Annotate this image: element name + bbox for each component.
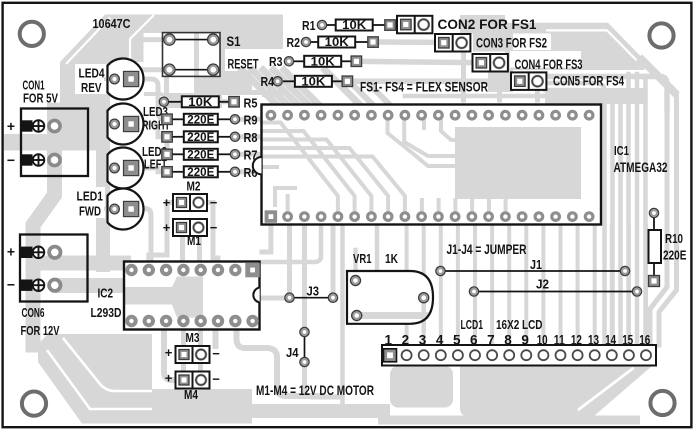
wire: CON4 pad down <box>497 68 502 100</box>
white pocket left of S1 <box>144 33 163 92</box>
svg-text:−: − <box>7 277 15 293</box>
wire: IC2 to M3 right <box>198 326 203 347</box>
wire: bottom-left pour <box>38 334 152 424</box>
resistor R9 <box>162 114 240 127</box>
resistor R4 <box>273 76 353 89</box>
connector CON2 <box>397 16 432 34</box>
wire: pour block under LCD left <box>390 366 453 408</box>
svg-text:+: + <box>163 195 171 210</box>
connector CON5 <box>511 72 546 90</box>
switch S1 <box>163 33 221 77</box>
label M3 plus <box>165 345 173 360</box>
svg-text:+: + <box>7 244 15 260</box>
wire: fan diagonal 6 <box>325 70 363 108</box>
label FOR 5V <box>23 92 59 106</box>
wire: LCD column 8 <box>507 226 511 343</box>
wire: LED1 route <box>134 209 151 263</box>
wire: arc right 3 <box>551 97 621 343</box>
svg-text:LCD1: LCD1 <box>461 317 484 332</box>
label R6 <box>244 166 258 180</box>
svg-text:220E: 220E <box>187 149 214 161</box>
connector CON3 <box>435 34 470 52</box>
label 220E r10 <box>663 248 687 263</box>
wire: M2 left route <box>149 203 181 265</box>
svg-text:+: + <box>7 118 15 134</box>
wire: IC1 to J4 <box>302 222 307 327</box>
LED LED4 <box>108 59 144 100</box>
svg-text:10K: 10K <box>188 97 213 109</box>
svg-text:3: 3 <box>419 333 427 348</box>
mounting hole top-right <box>649 23 673 47</box>
IC2 bottom pin row <box>125 315 259 327</box>
svg-text:2: 2 <box>402 333 410 348</box>
svg-text:+: + <box>165 371 173 386</box>
wire: R9 stub <box>239 117 261 122</box>
svg-text:10K: 10K <box>301 76 326 88</box>
white pocket R2 label <box>283 33 318 51</box>
svg-text:M1-M4 = 12V DC MOTOR: M1-M4 = 12V DC MOTOR <box>256 382 374 398</box>
label VR1 <box>353 252 372 266</box>
svg-text:−: − <box>210 195 218 210</box>
white pocket LED1 labels <box>74 187 105 218</box>
label IC2 <box>98 287 114 301</box>
svg-text:220E: 220E <box>187 114 214 126</box>
white isolation arc bottom-left <box>63 338 152 391</box>
jumper J1 <box>436 266 630 275</box>
label M1 plus <box>163 220 171 235</box>
wire: CON1 horizontal band <box>4 134 110 151</box>
svg-text:J3: J3 <box>307 285 320 299</box>
wire: LCD column 15 <box>627 226 631 343</box>
white line pour inner TL <box>130 15 154 62</box>
svg-text:16: 16 <box>639 333 650 348</box>
svg-text:RESET: RESET <box>228 57 260 72</box>
resistor R2 <box>301 37 378 50</box>
svg-text:R1: R1 <box>302 19 316 33</box>
label CON1 plus <box>7 118 15 134</box>
svg-text:CON2 FOR FS1: CON2 FOR FS1 <box>438 16 537 32</box>
svg-text:CON5 FOR FS4: CON5 FOR FS4 <box>553 73 624 89</box>
wire: LED2 route <box>134 168 167 172</box>
label J1 <box>530 257 542 272</box>
wire: LCD column 14 <box>610 226 614 343</box>
wire: band under M4 <box>152 389 252 424</box>
motor connector M1 <box>173 219 207 236</box>
svg-text:10K: 10K <box>325 37 350 49</box>
label R1 <box>302 19 316 33</box>
wire: R4 to CON5 <box>347 78 511 84</box>
wire: IC2 to M3 left <box>181 326 186 347</box>
wire: vertical to VR1 left pad <box>353 250 358 280</box>
jumper J3 <box>285 293 338 302</box>
svg-text:ATMEGA32: ATMEGA32 <box>614 160 668 175</box>
svg-text:J4: J4 <box>286 346 299 360</box>
label M1 <box>187 234 201 248</box>
svg-text:IC2: IC2 <box>98 287 114 301</box>
connector CON1 <box>21 109 88 177</box>
wire: right vertical 6 <box>643 76 648 343</box>
wire: R3 to CON4 <box>356 61 473 62</box>
label M4 minus <box>212 372 220 387</box>
wire: IC1 pin1 down <box>262 222 271 252</box>
jumper J4 <box>300 327 309 366</box>
svg-text:S1: S1 <box>227 34 241 49</box>
wire: arc right 2 <box>545 90 613 343</box>
wire: bottom band C <box>378 416 640 425</box>
label S1 <box>227 34 241 49</box>
wire: M2 right route <box>199 203 218 265</box>
wire: M1 left route <box>180 236 185 264</box>
wire: fan diagonal 8 <box>369 84 393 108</box>
svg-text:16X2 LCD: 16X2 LCD <box>496 317 543 332</box>
svg-text:−: − <box>212 372 220 387</box>
white isolation diag under LCD <box>578 368 634 410</box>
label CON2 FOR FS1 <box>438 16 537 32</box>
wire: S1 left pad stubs <box>144 40 170 70</box>
wire: LCD column 11 <box>559 226 563 343</box>
label R3 <box>269 55 283 69</box>
wire: M3 to M4 links <box>184 362 201 372</box>
resistor R7 <box>162 149 240 162</box>
white pocket CON4 text <box>510 51 581 68</box>
svg-text:9: 9 <box>521 333 529 348</box>
LCD header LCD1 <box>382 345 656 366</box>
svg-text:8: 8 <box>504 333 512 348</box>
label FS1-FS4 flex sensor <box>360 79 488 95</box>
wire: right outer band A <box>650 86 667 345</box>
resistor R1 <box>317 20 395 33</box>
white pocket R4 label <box>252 71 296 90</box>
svg-text:R3: R3 <box>269 55 283 69</box>
label R9 <box>244 114 258 128</box>
wire: right vertical 4 <box>626 74 631 343</box>
svg-text:CON6: CON6 <box>22 306 45 320</box>
white isolation diag bottom-left <box>47 350 152 409</box>
wire: CON1-CON6 vertical band <box>33 110 55 345</box>
IC1 bottom pin row <box>265 210 595 223</box>
connector CON4 <box>473 54 508 72</box>
svg-text:−: − <box>210 220 218 235</box>
wire: outer band diagonal <box>642 60 674 92</box>
LED LED1 <box>108 189 144 230</box>
wire: vertical right of J3 <box>340 226 345 404</box>
wire: LCD column 4 <box>439 226 443 343</box>
motor connector M4 <box>176 372 210 389</box>
label CON6 minus <box>7 277 15 293</box>
wire: fan diagonal 5 <box>284 70 322 108</box>
IC1 top pin row <box>266 110 595 121</box>
wire: CON5 pad down <box>535 86 540 100</box>
svg-text:220E: 220E <box>187 132 214 144</box>
svg-text:LED4: LED4 <box>79 67 105 81</box>
wire: M1 right route <box>197 236 202 264</box>
svg-text:R2: R2 <box>287 36 301 50</box>
label R7 <box>244 149 258 163</box>
svg-text:4: 4 <box>436 333 444 348</box>
label M1 minus <box>210 220 218 235</box>
motor connector M2 <box>173 194 207 211</box>
white slot pour left edge <box>52 34 61 58</box>
label CON6 plus <box>7 244 15 260</box>
wire: curve right of M4 <box>237 330 323 396</box>
white pocket CON3 text right <box>513 34 551 51</box>
svg-text:10K: 10K <box>311 56 336 68</box>
wire: fan diagonal 7 <box>352 84 376 108</box>
svg-text:M2: M2 <box>187 180 201 194</box>
svg-text:11: 11 <box>554 333 565 348</box>
label LED3 <box>143 105 168 119</box>
wire: LCD column 6 <box>473 226 477 343</box>
IC2 top pin row <box>125 263 259 278</box>
wire: R2 to CON3 <box>373 39 435 45</box>
wire: IC1 to J3 left <box>287 222 292 293</box>
wire: pour left of LEDs <box>60 62 110 150</box>
svg-text:5: 5 <box>453 333 461 348</box>
label ATMEGA32 <box>614 160 668 175</box>
svg-text:220E: 220E <box>187 167 214 179</box>
svg-text:R9: R9 <box>244 114 258 128</box>
svg-text:R8: R8 <box>244 131 258 145</box>
mounting hole top-left <box>20 22 44 46</box>
svg-text:VR1: VR1 <box>353 252 372 266</box>
svg-text:FOR 5V: FOR 5V <box>23 92 59 106</box>
svg-text:FOR 12V: FOR 12V <box>21 323 60 338</box>
white line pour chamfer TL <box>66 18 110 65</box>
wire: vertical to IC2 pin8 <box>262 226 321 262</box>
svg-text:10: 10 <box>537 333 548 348</box>
wire: LCD column 12 <box>576 226 580 343</box>
wire: S1 to R5 <box>164 70 169 102</box>
svg-text:J1: J1 <box>530 257 542 272</box>
label IC1 <box>614 143 629 158</box>
label CON6 <box>22 306 45 320</box>
label R10 <box>665 231 683 246</box>
label CON1 <box>23 78 45 92</box>
svg-text:220E: 220E <box>663 248 687 263</box>
svg-text:+: + <box>165 345 173 360</box>
jumper J2 <box>469 287 641 296</box>
LED LED2 <box>108 148 144 189</box>
svg-text:CON1: CON1 <box>23 78 45 92</box>
label M2 minus <box>210 195 218 210</box>
label M2 plus <box>163 195 171 210</box>
wire: top-right copper pour <box>460 15 644 70</box>
wire: pour left of CON5 <box>488 70 513 92</box>
svg-text:L293D: L293D <box>91 305 122 320</box>
wire: right vertical 5 <box>635 74 640 343</box>
svg-text:R4: R4 <box>261 75 275 89</box>
wire: LCD column 3 <box>422 226 426 343</box>
wire: LCD column 7 <box>490 226 494 343</box>
svg-text:FS1- FS4 = FLEX SENSOR: FS1- FS4 = FLEX SENSOR <box>360 79 488 95</box>
svg-text:7: 7 <box>487 333 495 348</box>
svg-text:R10: R10 <box>665 231 683 246</box>
svg-text:6: 6 <box>470 333 478 348</box>
resistor R5 <box>159 96 239 109</box>
wire: LCD column 9 <box>524 226 528 343</box>
wire: CON3 pad down <box>461 48 466 100</box>
svg-text:FWD: FWD <box>79 205 101 219</box>
wire: LCD column 16 <box>644 226 648 343</box>
resistor R10 <box>649 208 662 286</box>
wire: R8 stub <box>239 134 261 139</box>
svg-text:1K: 1K <box>385 252 398 266</box>
label 1K <box>385 252 398 266</box>
wire: vertical right of M3 <box>213 330 219 346</box>
label M2 <box>187 180 201 194</box>
svg-text:14: 14 <box>605 333 616 348</box>
svg-text:10K: 10K <box>342 20 367 32</box>
resistor R8 <box>162 131 240 144</box>
label M4 <box>184 388 198 402</box>
wire: left curve to M4 <box>164 330 176 380</box>
IC IC2 body L293D <box>124 262 260 330</box>
wire: S1 middle to R5 right <box>197 76 229 102</box>
label CON4 FOR FS3 <box>515 56 583 72</box>
wire: J4 below route <box>305 362 343 397</box>
label 16X2 LCD <box>496 317 543 332</box>
label LED4 <box>79 67 105 81</box>
label R8 <box>244 131 258 145</box>
mounting hole bottom-right <box>650 391 674 415</box>
svg-text:−: − <box>7 152 15 168</box>
wire: LCD column 5 <box>456 226 460 343</box>
board id 10647C <box>93 16 132 31</box>
label R5 <box>244 96 258 110</box>
wire: pour sliver above IC1 <box>405 88 644 104</box>
wire: R6 stub <box>239 169 261 174</box>
svg-text:J2: J2 <box>536 277 549 292</box>
svg-text:10647C: 10647C <box>93 16 132 31</box>
wire: VR1 wiper route <box>357 312 420 319</box>
svg-text:15: 15 <box>622 333 633 348</box>
svg-text:12: 12 <box>571 333 582 348</box>
label REV <box>81 81 102 95</box>
resistor R3 <box>284 56 361 69</box>
svg-text:M4: M4 <box>184 388 198 402</box>
white pocket RESET/R3 <box>225 49 296 71</box>
label LED2 <box>142 145 167 159</box>
svg-text:CON3 FOR FS2: CON3 FOR FS2 <box>476 35 547 51</box>
label J3 <box>307 285 320 299</box>
label FWD <box>79 205 101 219</box>
label L293D <box>91 305 122 320</box>
label M1-M4 motor <box>256 382 374 398</box>
wire: R8-R7 link <box>165 137 170 155</box>
wire: LED4 route <box>134 79 165 119</box>
label LEFT <box>144 158 167 172</box>
svg-text:+: + <box>163 220 171 235</box>
svg-text:IC1: IC1 <box>614 143 629 158</box>
white line pour inner TR <box>546 30 637 60</box>
wire: right outer band B <box>659 95 677 345</box>
wire: J3 right up <box>331 222 336 293</box>
svg-text:LED1: LED1 <box>77 190 104 204</box>
mounting hole bottom-left <box>22 392 46 416</box>
svg-text:M3: M3 <box>186 331 200 345</box>
wire: fan diagonal 3 <box>263 70 301 108</box>
white pocket R1 label <box>283 14 336 33</box>
wire: IC2 to J3 <box>262 296 285 301</box>
label LED1 <box>77 190 104 204</box>
LED LED3 <box>108 103 144 144</box>
svg-text:M1: M1 <box>187 234 201 248</box>
label M4 plus <box>165 371 173 386</box>
label R2 <box>287 36 301 50</box>
wire: fan diagonal 4 <box>274 70 312 108</box>
svg-text:1: 1 <box>385 333 393 348</box>
label CON5 FOR FS4 <box>553 73 624 89</box>
connector CON6 <box>20 235 88 302</box>
wire: CON6 minus band <box>55 278 124 293</box>
label M3 minus <box>212 346 220 361</box>
wire: R7 stub <box>239 152 261 157</box>
white pocket LED4 labels <box>75 64 106 94</box>
wire: LED left stubs <box>106 79 116 209</box>
wire: bottom band B <box>230 404 390 418</box>
label J4 <box>286 346 299 360</box>
wire: pour block under LCD right <box>460 366 652 416</box>
LCD pin numbers 1-16 <box>385 333 651 348</box>
wire: LED3 route <box>134 124 167 137</box>
label RIGHT <box>142 119 170 133</box>
wire: vertical trace left band <box>96 62 110 272</box>
label J2 <box>536 277 549 292</box>
IC IC1 body ATMEGA32 <box>253 105 601 225</box>
label J1-J4 jumper <box>447 241 527 257</box>
svg-text:R5: R5 <box>244 96 258 110</box>
svg-text:REV: REV <box>81 81 102 95</box>
svg-text:CON4 FOR FS3: CON4 FOR FS3 <box>515 56 583 72</box>
wire: arc right 1 <box>545 83 605 343</box>
wire: CON5 long trace to right band <box>540 77 667 111</box>
wire: CON6 plus band <box>40 256 131 271</box>
label R4 <box>261 75 275 89</box>
motor connector M3 <box>176 346 210 363</box>
potentiometer VR1 <box>347 271 433 330</box>
white pocket R5 label <box>222 95 262 110</box>
svg-text:−: − <box>212 346 220 361</box>
svg-text:J1-J4 = JUMPER: J1-J4 = JUMPER <box>447 241 527 257</box>
wire: LCD column 2 <box>405 226 409 343</box>
white pocket under S1 <box>162 77 196 93</box>
wire: fan diagonal 1 <box>242 70 280 108</box>
wire: top-left copper pour <box>60 15 283 109</box>
label CON1 minus <box>7 152 15 168</box>
label RESET <box>228 57 260 72</box>
svg-text:13: 13 <box>588 333 599 348</box>
label CON3 FOR FS2 <box>476 35 547 51</box>
wire: vertical to VR1 top pad <box>375 226 380 271</box>
resistor R6 <box>162 166 240 179</box>
label LCD1 <box>461 317 484 332</box>
wire: LCD column 10 <box>541 226 545 343</box>
wire: LCD column 13 <box>593 226 597 343</box>
label FOR 12V <box>21 323 60 338</box>
label M3 <box>186 331 200 345</box>
wire: fan diagonal 2 <box>253 70 291 108</box>
